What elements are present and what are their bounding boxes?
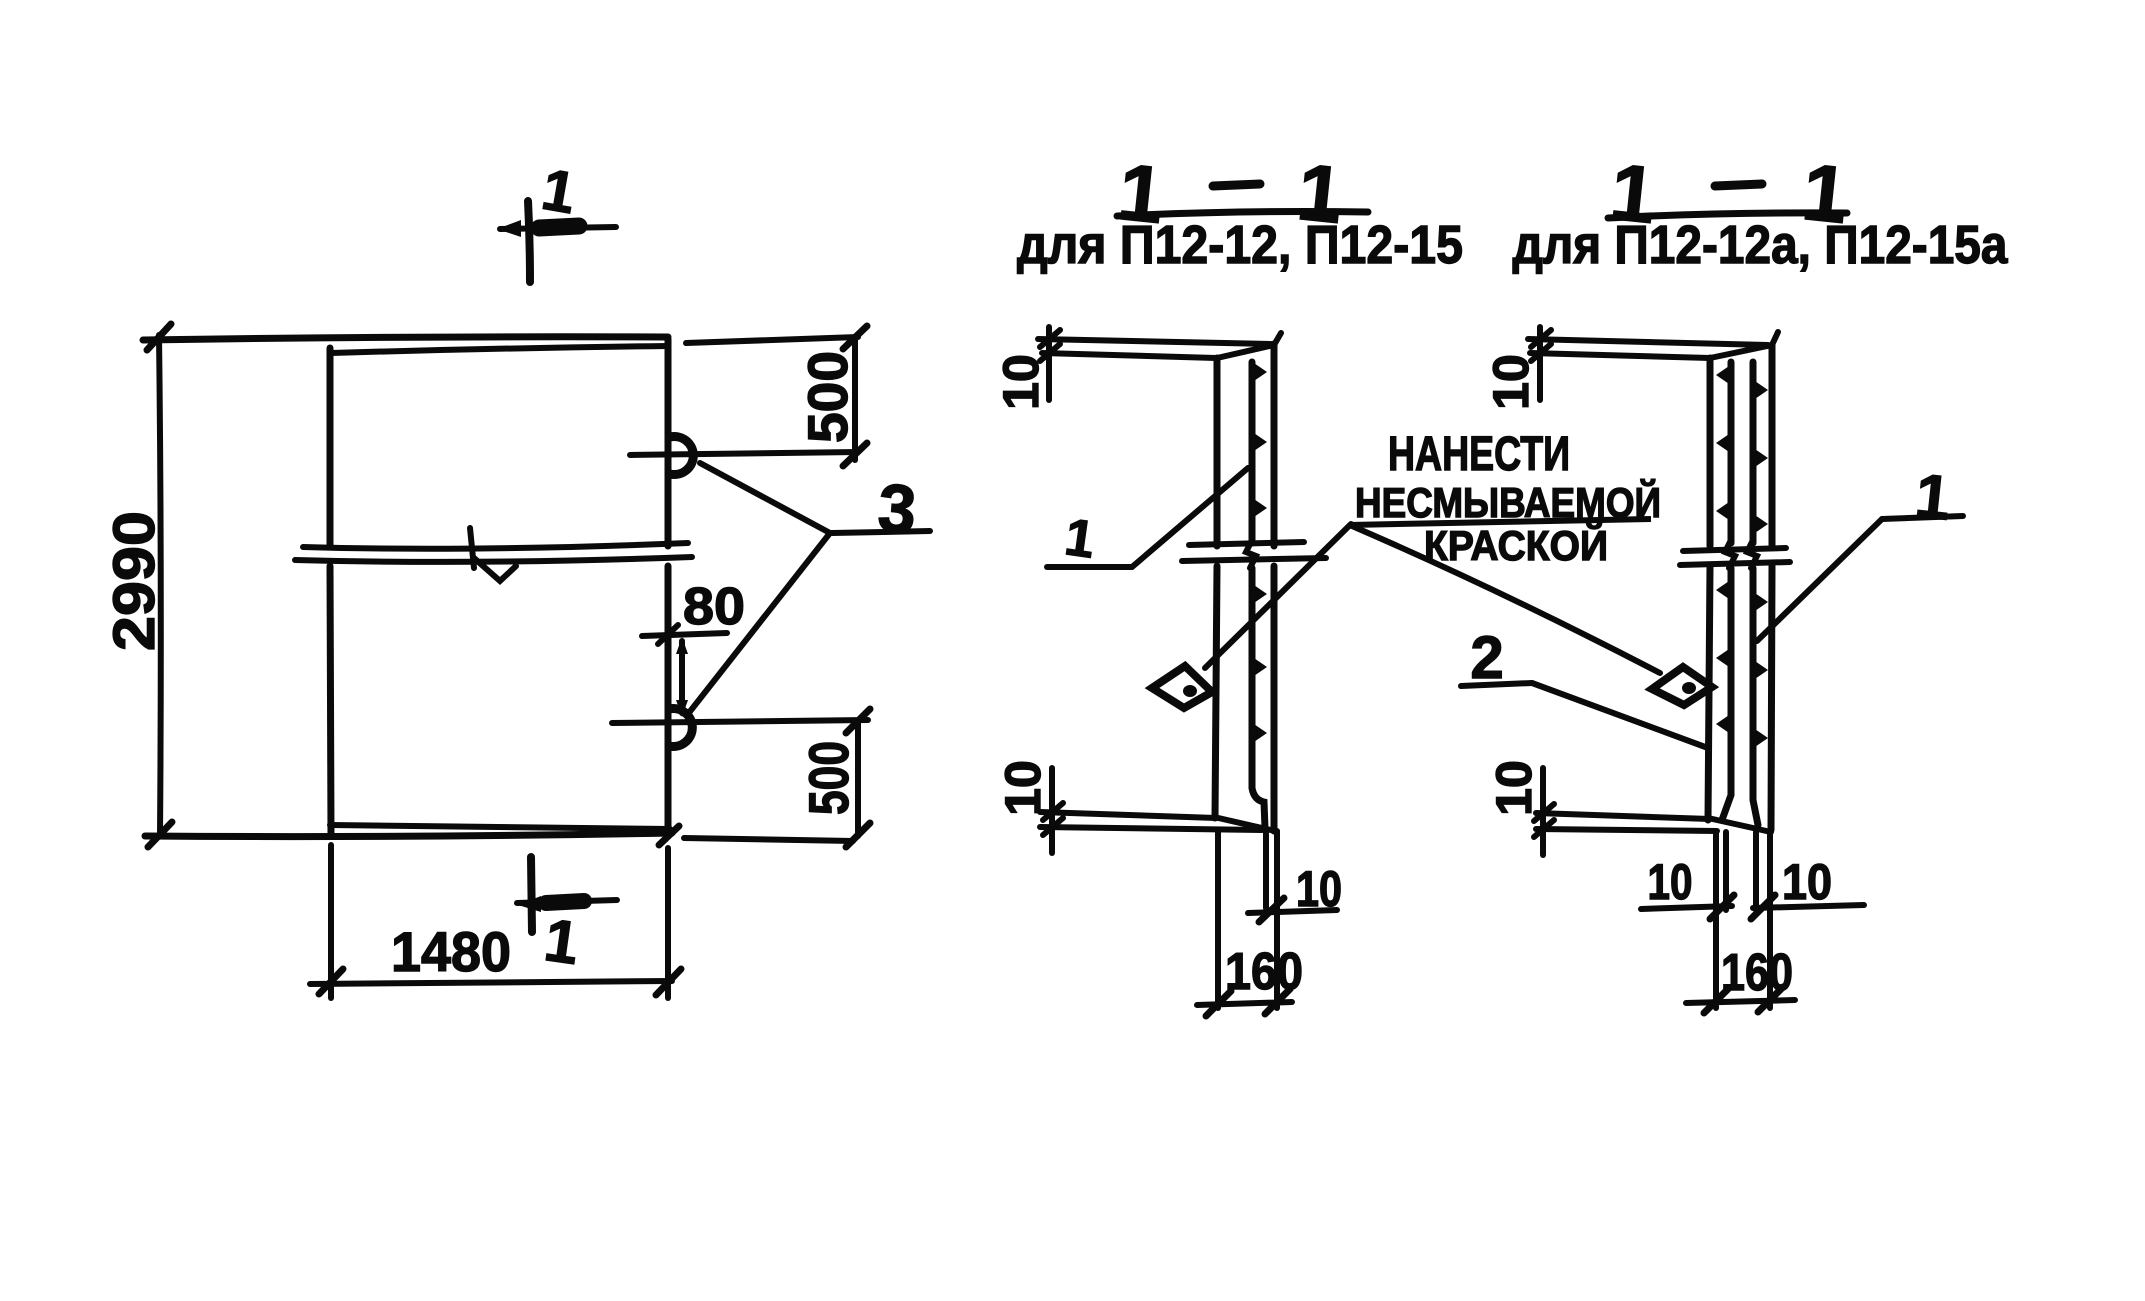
svg-text:10: 10 <box>1648 854 1693 910</box>
svg-text:500: 500 <box>797 741 860 815</box>
svg-text:1480: 1480 <box>391 920 511 983</box>
svg-text:10: 10 <box>1296 861 1342 917</box>
svg-text:КРАСКОЙ: КРАСКОЙ <box>1424 521 1608 569</box>
svg-text:НАНЕСТИ: НАНЕСТИ <box>1388 428 1570 481</box>
svg-text:10: 10 <box>1483 354 1539 410</box>
svg-text:для П12-12а, П12-15а: для П12-12а, П12-15а <box>1513 215 2009 275</box>
svg-text:10: 10 <box>1486 760 1542 816</box>
svg-text:160: 160 <box>1225 943 1303 1001</box>
svg-text:3: 3 <box>876 470 919 548</box>
svg-text:1: 1 <box>1912 461 1954 533</box>
svg-text:10: 10 <box>993 354 1049 410</box>
svg-text:10: 10 <box>1782 854 1832 910</box>
svg-text:500: 500 <box>796 351 859 443</box>
svg-text:2990: 2990 <box>102 511 167 651</box>
svg-text:для П12-12, П12-15: для П12-12, П12-15 <box>1017 215 1463 275</box>
svg-text:2: 2 <box>1470 624 1503 691</box>
svg-text:10: 10 <box>995 760 1051 816</box>
svg-text:80: 80 <box>683 578 745 636</box>
svg-text:160: 160 <box>1721 944 1793 1002</box>
